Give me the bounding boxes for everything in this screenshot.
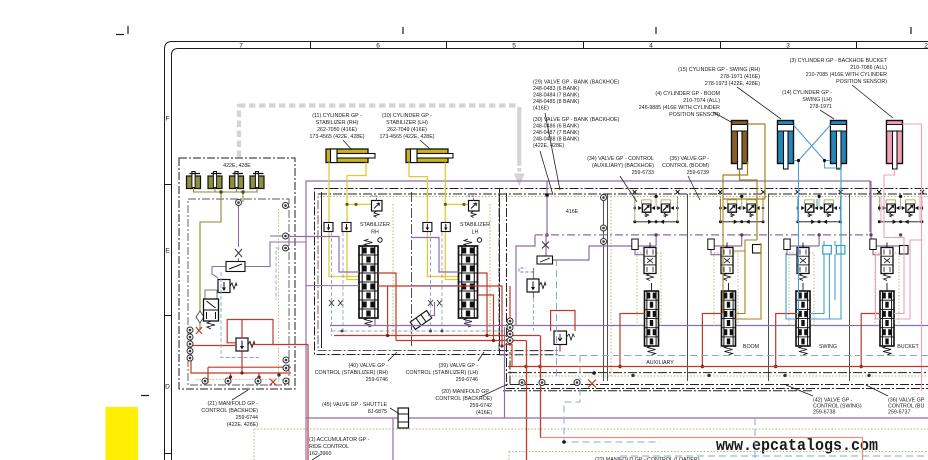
svg-text:D: D: [165, 384, 170, 391]
solenoid spool valve stack: [205, 290, 217, 299]
olive dotted spool sub-boxes: [637, 253, 899, 325]
svg-text:262-7049 (416E): 262-7049 (416E): [387, 127, 427, 133]
svg-text:CONTROL (BACKHOE): CONTROL (BACKHOE): [201, 408, 258, 414]
auxiliary valve section (34) 259-6733: [633, 190, 680, 355]
svg-text:(40) VALVE GP -: (40) VALVE GP -: [349, 363, 389, 369]
svg-text:RH: RH: [371, 230, 379, 236]
pink bucket cylinder lines: [884, 124, 922, 175]
svg-text:248-0483 (6 BANK): 248-0483 (6 BANK): [533, 86, 579, 92]
relief valve (manifold 21 lower) with red supply loop: [236, 338, 255, 351]
svg-text:(45) VALVE GP - SHUTTLE: (45) VALVE GP - SHUTTLE: [322, 402, 388, 408]
red supply loop and secondary relief 416E: [551, 311, 575, 352]
stabilizer LH valve section (39) 259-6746: [332, 196, 505, 333]
purple pilot wiring manifold 21: [212, 205, 306, 278]
pilot operated valve (horizontal): [226, 262, 245, 272]
svg-text:259-6733: 259-6733: [632, 170, 654, 176]
solenoid valves (4x) on manifold 21: [187, 172, 201, 189]
blue dashed drain lines manifold 21: [221, 203, 286, 358]
svg-text:210-7086 (ALL): 210-7086 (ALL): [850, 65, 887, 71]
port rings 416E section: [601, 195, 607, 201]
svg-text:8J-6875: 8J-6875: [368, 409, 387, 415]
svg-text:(11) CYLINDER GP -: (11) CYLINDER GP -: [312, 113, 362, 119]
svg-text:248-0486 (6 BANK): 248-0486 (6 BANK): [533, 124, 579, 130]
ruler ticks top: [310, 41, 312, 49]
svg-text:416E: 416E: [566, 209, 579, 215]
svg-text:(34) VALVE GP - CONTROL: (34) VALVE GP - CONTROL: [587, 156, 654, 162]
svg-text:STABILIZER (RH): STABILIZER (RH): [316, 120, 359, 126]
svg-text:(10) CYLINDER GP -: (10) CYLINDER GP -: [382, 113, 432, 119]
cylinder GP backhoe bucket (3) 210-7086 pink: [887, 121, 903, 170]
gray dashed reference path with arrow: [239, 104, 519, 172]
cyan lines in swing section: [786, 168, 841, 319]
diamond check valve: [196, 311, 204, 323]
svg-text:173-4565 (422E, 428E): 173-4565 (422E, 428E): [379, 134, 434, 140]
ruler numbers and row letters: [165, 43, 928, 391]
svg-text:(4) CYLINDER GP - BOOM: (4) CYLINDER GP - BOOM: [655, 91, 720, 97]
boom valve section (35) 259-6739: [718, 190, 765, 355]
svg-text:(1) ACCUMULATOR GP -: (1) ACCUMULATOR GP -: [309, 437, 370, 443]
diagonal shuttle valve between stabilizer sections: [410, 311, 432, 330]
svg-text:AUXILIARY: AUXILIARY: [646, 360, 674, 366]
bank right part: [507, 193, 928, 389]
svg-text:LH: LH: [472, 230, 479, 236]
svg-text:259-6739: 259-6739: [687, 170, 709, 176]
svg-text:(416E): (416E): [533, 106, 549, 112]
bucket valve section (36) 259-6737: [877, 190, 924, 355]
pilot reducing valves (per section): [632, 239, 876, 250]
shuttle valve (45) 8J-6875: [398, 408, 409, 428]
blue dashed: [332, 232, 344, 336]
swing valve section (42) 259-6738: [796, 190, 845, 355]
closed-port X mark: [235, 249, 242, 257]
svg-text:246-9885 (416E WITH CYLINDER: 246-9885 (416E WITH CYLINDER: [639, 105, 720, 111]
port rings bank bottom edge: [519, 380, 525, 386]
cylinder GP swing RH (15) 278-1971 blue: [778, 121, 794, 170]
svg-text:STABILIZER (LH): STABILIZER (LH): [386, 120, 428, 126]
red main supply distribution: [508, 336, 928, 460]
svg-text:(416E): (416E): [476, 410, 492, 416]
svg-text:CONTROL (STABILIZER) (RH): CONTROL (STABILIZER) (RH): [315, 370, 389, 376]
svg-text:CONTROL (STABILIZER) (LH): CONTROL (STABILIZER) (LH): [406, 370, 479, 376]
svg-text:210-7085 (416E WITH CYLINDER: 210-7085 (416E WITH CYLINDER: [806, 72, 887, 78]
svg-text:POSITION SENSOR): POSITION SENSOR): [669, 112, 720, 118]
cylinder GP boom (4) 210-7074 brown: [732, 121, 748, 170]
pilot feed stubs (colored per circuit): [635, 196, 678, 221]
svg-text:262-7050 (416E): 262-7050 (416E): [317, 127, 357, 133]
svg-text:162-3960: 162-3960: [309, 451, 331, 457]
cyan crossed swing lines: [794, 125, 842, 199]
svg-text:(39) VALVE GP -: (39) VALVE GP -: [439, 363, 479, 369]
svg-text:(35) VALVE GP -: (35) VALVE GP -: [670, 156, 710, 162]
svg-text:173-4565 (422E, 428E): 173-4565 (422E, 428E): [309, 134, 364, 140]
svg-text:210-7074 (ALL): 210-7074 (ALL): [683, 98, 720, 104]
port rings manifold 21 right/top: [283, 203, 289, 209]
svg-text:259-6744: 259-6744: [236, 415, 258, 421]
cylinder GP stabilizer LH (10) 262-7049: [406, 149, 453, 163]
bank section divider lines: [412, 192, 850, 381]
relief valve (manifold 21 upper): [218, 280, 237, 293]
svg-text:SWING: SWING: [819, 344, 837, 350]
svg-text:3: 3: [786, 43, 790, 50]
svg-text:E: E: [165, 248, 170, 255]
svg-text:6: 6: [376, 43, 380, 50]
svg-text:POSITION SENSOR): POSITION SENSOR): [836, 79, 887, 85]
blue dashed drain below relief: [533, 298, 535, 331]
label leader lines: [232, 85, 893, 460]
svg-text:(20) MANIFOLD GP -: (20) MANIFOLD GP -: [441, 389, 492, 395]
olive pilot wiring manifold 21: [194, 188, 258, 330]
svg-text:2: 2: [924, 43, 928, 50]
svg-text:259-6746: 259-6746: [456, 377, 478, 383]
svg-text:(21) MANIFOLD GP -: (21) MANIFOLD GP -: [207, 401, 258, 407]
red supply feeds to bank spools: [620, 314, 880, 367]
svg-text:CONTROL (BOOM): CONTROL (BOOM): [662, 163, 709, 169]
gold lines in boom section: [723, 199, 761, 319]
svg-text:(422E, 428E): (422E, 428E): [533, 143, 564, 149]
svg-text:CONTROL (BACKHOE): CONTROL (BACKHOE): [435, 396, 492, 402]
svg-text:STABILIZER: STABILIZER: [460, 222, 490, 228]
left frame ticks: [164, 184, 171, 186]
svg-text:5: 5: [512, 43, 516, 50]
svg-text:248-0488 (8 BANK): 248-0488 (8 BANK): [533, 137, 579, 143]
stabilizer RH valve section (40) 259-6746: [322, 192, 383, 348]
junction dots on olive drain line: [631, 374, 870, 377]
svg-text:www.epcatalogs.com: www.epcatalogs.com: [716, 436, 878, 455]
yellow stabilizer hoses: [329, 163, 468, 280]
svg-text:(15) CYLINDER GP - SWING (RH): (15) CYLINDER GP - SWING (RH): [678, 67, 760, 73]
svg-text:4: 4: [649, 43, 653, 50]
pink lines in bucket section: [876, 124, 922, 391]
svg-text:BUCKET: BUCKET: [897, 344, 919, 350]
svg-text:248-0485 (8 BANK): 248-0485 (8 BANK): [533, 99, 579, 105]
svg-text:248-0487 (7 BANK): 248-0487 (7 BANK): [533, 130, 579, 136]
svg-text:SWING (LH): SWING (LH): [802, 97, 832, 103]
purple pilot feed 416E section: [516, 181, 635, 326]
olive dotted guide lines: [254, 197, 928, 460]
purple pilot lines stabilizer area: [289, 237, 928, 326]
svg-text:259-6742: 259-6742: [470, 403, 492, 409]
svg-text:259-6737: 259-6737: [888, 410, 910, 416]
svg-text:278-1971: 278-1971: [810, 104, 832, 110]
valve bank dash-dot enclosure: [315, 189, 928, 391]
svg-text:7: 7: [239, 43, 243, 50]
purple pilot line bottom rail: [306, 327, 928, 460]
svg-text:259-6746: 259-6746: [366, 377, 388, 383]
svg-text:259-6738: 259-6738: [813, 410, 835, 416]
svg-text:BOOM: BOOM: [743, 344, 759, 350]
svg-text:(3) CYLINDER GP - BACKHOE BUCK: (3) CYLINDER GP - BACKHOE BUCKET: [790, 58, 888, 64]
svg-text:(14) CYLINDER GP -: (14) CYLINDER GP -: [782, 90, 832, 96]
manifold GP control (21) backhoe 259-6744: [179, 158, 295, 389]
red X plug mark: [196, 327, 202, 334]
drawing frame border: [164, 41, 928, 460]
pilot valve (horizontal) 416E section: [537, 256, 553, 264]
port rings manifold 21 bottom: [196, 378, 290, 380]
svg-text:422E, 428E: 422E, 428E: [223, 163, 251, 169]
port rings manifold 21 left edge: [187, 327, 193, 333]
svg-text:RIDE CONTROL: RIDE CONTROL: [309, 444, 349, 450]
outer border left+top: [165, 42, 928, 460]
X X marks: [329, 300, 343, 306]
main relief valve 416E section: [527, 279, 546, 292]
svg-text:(29) VALVE GP - BANK (BACKHOE: (29) VALVE GP - BANK (BACKHOE): [533, 80, 619, 86]
cylinder GP stabilizer RH (11) 262-7050: [326, 149, 375, 163]
red supply lines stabilizer area: [334, 273, 540, 367]
svg-text:(AUXILIARY) (BACKHOE): (AUXILIARY) (BACKHOE): [592, 163, 654, 169]
svg-text:F: F: [166, 116, 170, 123]
svg-text:248-0484 (7 BANK): 248-0484 (7 BANK): [533, 93, 579, 99]
svg-text:278-1971 (416E): 278-1971 (416E): [720, 74, 760, 80]
svg-text:STABILIZER: STABILIZER: [360, 222, 390, 228]
purple pilot supply boundary box: [306, 181, 870, 460]
purple dashed pilot sense line: [519, 268, 534, 272]
svg-text:(422E, 428E): (422E, 428E): [227, 422, 258, 428]
gold boom cylinder lines: [723, 124, 765, 240]
purple pilot rail across bank: [535, 181, 901, 255]
blue dashed drain lines bottom: [557, 259, 928, 460]
cyan anti-cavitation boxes swing: [823, 246, 832, 255]
yellow sticker overlay: [106, 407, 139, 460]
small check boxes on boom/bucket pilot lines: [753, 245, 762, 254]
fold marks: [116, 26, 911, 396]
svg-text:278-1973 (422E, 428E): 278-1973 (422E, 428E): [705, 81, 760, 87]
